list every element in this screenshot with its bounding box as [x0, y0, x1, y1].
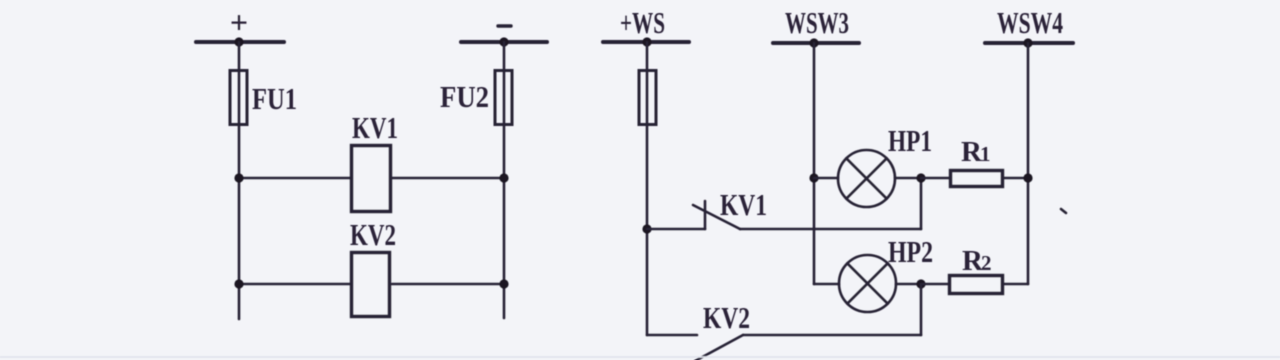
bottom table rule (faint)	[0, 356, 1280, 358]
fuse FU1	[230, 71, 297, 125]
wire upper horizontal of coil branch	[234, 173, 508, 182]
svg-text:FU1: FU1	[252, 81, 297, 116]
svg-text:+WS: +WS	[620, 5, 665, 40]
resistor R2	[921, 245, 1028, 294]
wire WSW4 vertical	[1023, 43, 1032, 284]
resistor R1	[921, 136, 1028, 187]
contact KV2 (normally-open relay contact, cut off at image bottom)	[647, 300, 750, 360]
fuse (unlabeled, on +WS feeder)	[639, 71, 656, 125]
svg-text:WSW3: WSW3	[785, 5, 849, 40]
node WSW4 (signal rail)	[985, 5, 1073, 48]
wire from contact KV1 to HP1/R1 junction	[740, 178, 921, 229]
lamp HP1	[809, 123, 932, 207]
svg-text:2: 2	[981, 251, 992, 275]
svg-text:KV2: KV2	[703, 300, 750, 335]
wire right vertical from - rail	[503, 42, 506, 318]
relay coil KV2	[350, 217, 396, 317]
svg-text:KV2: KV2	[350, 217, 396, 252]
svg-text:1: 1	[980, 142, 991, 166]
svg-text:KV1: KV1	[720, 187, 767, 222]
svg-text:HP2: HP2	[888, 234, 933, 269]
node +WS (control supply rail)	[603, 5, 689, 47]
svg-text:HP1: HP1	[888, 123, 932, 158]
lamp HP2	[814, 234, 933, 312]
fuse FU2	[440, 71, 512, 125]
contact KV1 (normally-open relay contact)	[642, 187, 767, 234]
wire from contact KV2 to HP2/R2 junction	[743, 284, 921, 335]
svg-text:KV1: KV1	[352, 110, 398, 145]
svg-text:+: +	[230, 4, 248, 40]
wire lower horizontal of coil branch	[234, 279, 508, 288]
node - (negative supply rail)	[461, 26, 547, 47]
node WSW3 (signal rail)	[773, 5, 859, 48]
wire left vertical from + rail	[238, 42, 241, 319]
wire +WS vertical feeder	[646, 42, 649, 335]
relay coil KV1	[352, 110, 399, 212]
node + (positive supply rail)	[196, 4, 284, 47]
svg-text:FU2: FU2	[440, 79, 489, 114]
wire WSW3 vertical	[813, 43, 816, 284]
stray mark (scan artifact)	[1061, 209, 1066, 213]
svg-text:WSW4: WSW4	[997, 5, 1063, 40]
